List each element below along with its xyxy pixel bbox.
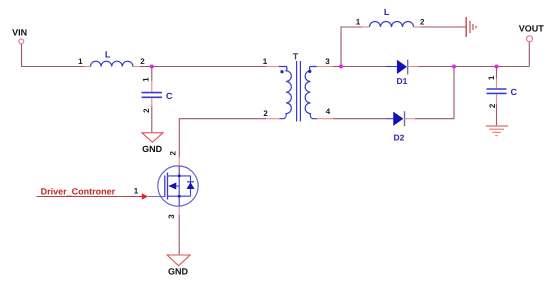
wire D2 to D1 output node	[415, 67, 454, 119]
ground GND symbol left	[142, 133, 163, 142]
wire C2 top	[496, 67, 498, 79]
transformer T pin1 stub	[266, 66, 280, 68]
capacitor C2 pin2 stub	[496, 94, 498, 104]
MOSFET Q1 gate lead	[148, 196, 165, 198]
MOSFET Q1 channel bar	[167, 173, 169, 200]
wire C1 top	[151, 67, 153, 82]
svg-text:C: C	[511, 87, 518, 97]
svg-text:1: 1	[141, 77, 150, 82]
diode D1 body	[397, 60, 406, 74]
transformer T pin2 stub	[266, 118, 280, 120]
earth ground rotated bars	[466, 17, 476, 37]
svg-text:3: 3	[167, 214, 176, 219]
wire TX pin4 to D2	[333, 118, 386, 120]
transformer T pin3 stub	[317, 66, 334, 68]
node Driver_Controner port arrow	[142, 193, 148, 200]
ground GND symbol bottom	[167, 255, 190, 266]
wire junction to transformer pin1	[152, 66, 266, 68]
svg-text:1: 1	[78, 57, 83, 66]
svg-text:D1: D1	[396, 76, 407, 86]
wire riser to L2	[341, 27, 363, 67]
svg-text:1: 1	[487, 75, 496, 80]
wire Driver_Controner	[37, 196, 143, 198]
svg-text:1: 1	[134, 187, 139, 196]
capacitor C2 plates	[487, 88, 507, 90]
transformer T primary winding	[279, 67, 291, 119]
capacitor C1 pin1 stub	[151, 81, 153, 92]
earth ground rotated lead	[458, 26, 466, 28]
svg-text:Driver_Controner: Driver_Controner	[41, 187, 116, 197]
transformer T secondary winding	[305, 67, 317, 119]
svg-text:2: 2	[420, 18, 425, 27]
inductor L1 pin2 stub	[133, 66, 140, 68]
MOSFET Q1 body diode	[187, 182, 195, 189]
svg-text:T: T	[293, 51, 299, 61]
transformer T primary polarity dot	[280, 70, 283, 73]
transformer T pin4 stub	[317, 118, 334, 120]
MOSFET Q1 gate bar	[164, 176, 166, 198]
diode D2 cathode bar	[404, 111, 406, 126]
svg-text:VOUT: VOUT	[519, 23, 545, 33]
MOSFET Q1 drain pin stub	[178, 158, 180, 166]
junction dot at L1/C1 node	[150, 64, 154, 68]
MOSFET Q1 body diode cathode bar	[187, 181, 194, 183]
wire MOSFET source to GND	[178, 215, 180, 255]
wire C2 to earth ground	[496, 104, 498, 126]
diode D1 cathode bar	[407, 60, 409, 75]
svg-text:2: 2	[263, 109, 268, 118]
inductor L2 pin1 stub	[363, 26, 370, 28]
svg-text:2: 2	[488, 103, 497, 108]
wire L1 to junction	[140, 66, 152, 68]
MOSFET Q1 substrate line	[176, 185, 179, 187]
svg-text:L: L	[105, 49, 111, 59]
junction dot at L2 branch	[339, 64, 343, 68]
inductor L2 body	[370, 22, 414, 28]
svg-text:2: 2	[142, 108, 151, 113]
capacitor C1 pin2 stub	[151, 98, 153, 106]
diode D1 anode lead	[386, 66, 397, 68]
svg-text:GND: GND	[142, 144, 163, 154]
svg-text:VIN: VIN	[12, 27, 27, 37]
diode D2 body	[394, 112, 404, 126]
svg-text:4: 4	[326, 107, 331, 116]
MOSFET Q1 source pin stub	[178, 206, 180, 215]
wire VOUT drop	[528, 42, 530, 67]
diode D1 cathode stub	[408, 66, 418, 68]
MOSFET Q1 drain internal path	[168, 166, 180, 207]
junction dot C2 node	[494, 64, 498, 68]
svg-text:3: 3	[325, 57, 330, 66]
inductor L2 pin2 stub	[414, 26, 421, 28]
earth ground bars bottom right	[486, 126, 508, 136]
svg-text:L: L	[384, 7, 390, 17]
wire D1 to VOUT rail	[418, 66, 529, 68]
svg-text:D2: D2	[393, 133, 404, 143]
svg-text:GND: GND	[168, 267, 189, 277]
node VOUT port circle	[527, 36, 533, 42]
node VIN port circle	[19, 39, 24, 44]
svg-text:2: 2	[168, 151, 177, 156]
svg-text:1: 1	[356, 18, 361, 27]
svg-text:C: C	[166, 91, 173, 101]
MOSFET Q1 circle	[158, 166, 198, 206]
wire TX pin3 to D1	[333, 66, 386, 68]
wire TX pin2 to MOSFET drain	[179, 119, 266, 158]
junction dot D1/D2 node	[452, 64, 456, 68]
wire C1 to GND	[151, 106, 153, 132]
transformer T secondary polarity dot	[308, 70, 311, 73]
diode D2 cathode stub	[405, 118, 416, 120]
capacitor C2 pin1 stub	[496, 78, 498, 88]
inductor L1 body	[91, 61, 133, 66]
inductor L1 pin1 stub	[85, 66, 91, 68]
capacitor C1 plates	[142, 92, 163, 94]
wire L2 to earth ground	[421, 26, 459, 28]
MOSFET Q1 top internal rail to body diode	[179, 176, 190, 196]
svg-text:1: 1	[263, 57, 268, 66]
svg-text:2: 2	[140, 57, 145, 66]
MOSFET Q1 source internal path	[168, 195, 191, 197]
transformer T core lines	[296, 61, 298, 122]
MOSFET Q1 substrate arrow	[168, 183, 176, 190]
MOSFET Q1 internal junction dots	[178, 174, 181, 177]
diode D2 anode lead	[386, 118, 394, 120]
wire VIN to L1	[22, 44, 85, 67]
